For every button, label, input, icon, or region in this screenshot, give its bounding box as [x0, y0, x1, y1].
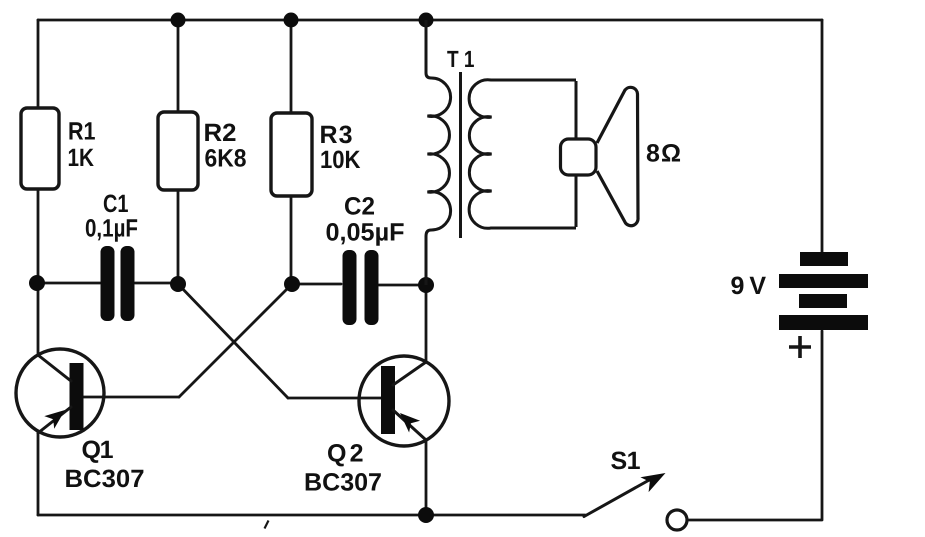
wire right rail upper	[821, 20, 824, 252]
wire left rail lower	[37, 433, 40, 515]
battery B1 plates	[779, 252, 868, 330]
switch S1 terminal circle	[667, 510, 687, 530]
svg-text:Q1: Q1	[82, 436, 114, 464]
svg-text:R3: R3	[320, 121, 353, 149]
capacitor C2 plates	[343, 250, 379, 325]
svg-text:BC307: BC307	[65, 465, 145, 493]
transistor Q1 emitter lead	[38, 407, 71, 433]
wire C2 left	[292, 283, 341, 286]
junction dot top R2	[171, 13, 186, 28]
wire bottom rail	[38, 514, 585, 517]
svg-text:C2: C2	[344, 193, 375, 221]
transistor Q2 circle	[359, 356, 449, 446]
wire Q2 base	[288, 397, 382, 400]
transistor Q1 emitter arrow	[44, 410, 65, 429]
svg-text:1K: 1K	[68, 144, 95, 172]
wire Q2 collector vertical	[425, 285, 428, 362]
svg-text:0,1µF: 0,1µF	[85, 215, 138, 243]
transistor Q1 collector lead	[38, 355, 71, 381]
wire R3 top	[290, 20, 293, 113]
battery plus sign	[789, 336, 811, 358]
capacitor C1 plates	[101, 246, 135, 321]
wire R3 bottom	[290, 196, 293, 284]
svg-text:0,05µF: 0,05µF	[326, 219, 405, 247]
transformer T1 secondary winding	[469, 80, 576, 229]
resistor R1	[21, 108, 59, 189]
wire top rail	[38, 19, 822, 22]
junction dot C2 left node	[284, 276, 300, 292]
svg-text:BC307: BC307	[304, 469, 382, 497]
transformer T1 primary winding	[426, 20, 451, 285]
wire C2 right	[379, 284, 426, 287]
junction dot top R3	[284, 13, 299, 28]
junction dot bottom rail Q2	[418, 507, 434, 523]
transistor Q1 circle	[16, 349, 104, 437]
svg-text:8Ω: 8Ω	[646, 140, 681, 168]
resistor R2	[158, 112, 198, 190]
wire C1 left	[38, 282, 100, 285]
speaker connection wires	[575, 81, 578, 227]
wire right rail lower	[688, 331, 822, 520]
svg-text:R1: R1	[68, 118, 96, 146]
svg-text:10K: 10K	[320, 146, 361, 174]
transistor Q2 emitter arrow	[400, 413, 420, 433]
junction dot C2 right node	[418, 277, 434, 293]
transistor Q2 base bar	[381, 366, 395, 434]
wire C1 right	[135, 282, 178, 285]
transistor Q2 collector lead	[393, 362, 426, 385]
svg-text:S1: S1	[611, 447, 641, 475]
wire cross diagonal C1-to-Q2	[178, 284, 288, 398]
svg-text:6K8: 6K8	[205, 145, 247, 173]
speaker cone	[597, 87, 638, 225]
wire left rail mid	[37, 189, 40, 355]
wire R2 top	[177, 20, 180, 112]
svg-text:9V: 9V	[731, 272, 767, 300]
wire Q1 base	[83, 396, 179, 399]
junction dot top T1	[419, 13, 434, 28]
svg-text:T 1: T 1	[447, 46, 475, 72]
switch S1 arrowhead	[640, 473, 665, 492]
transistor Q1 base bar	[70, 363, 84, 430]
junction dot C1 right node	[170, 276, 186, 292]
wire left rail upper	[37, 20, 40, 108]
svg-text:Q2: Q2	[327, 440, 364, 468]
switch S1 lever	[584, 479, 651, 517]
junction dot C1 left node	[29, 275, 45, 291]
stray scan mark	[265, 521, 269, 529]
wire Q2 emitter vertical	[425, 440, 428, 515]
speaker driver box	[561, 139, 597, 175]
transformer T1 core	[459, 72, 462, 238]
resistor R3	[271, 113, 312, 196]
wire cross diagonal C2-to-Q1	[179, 284, 292, 397]
wire R2 bottom	[177, 190, 180, 284]
svg-text:R2: R2	[204, 119, 237, 147]
transistor Q2 emitter lead	[393, 410, 426, 440]
